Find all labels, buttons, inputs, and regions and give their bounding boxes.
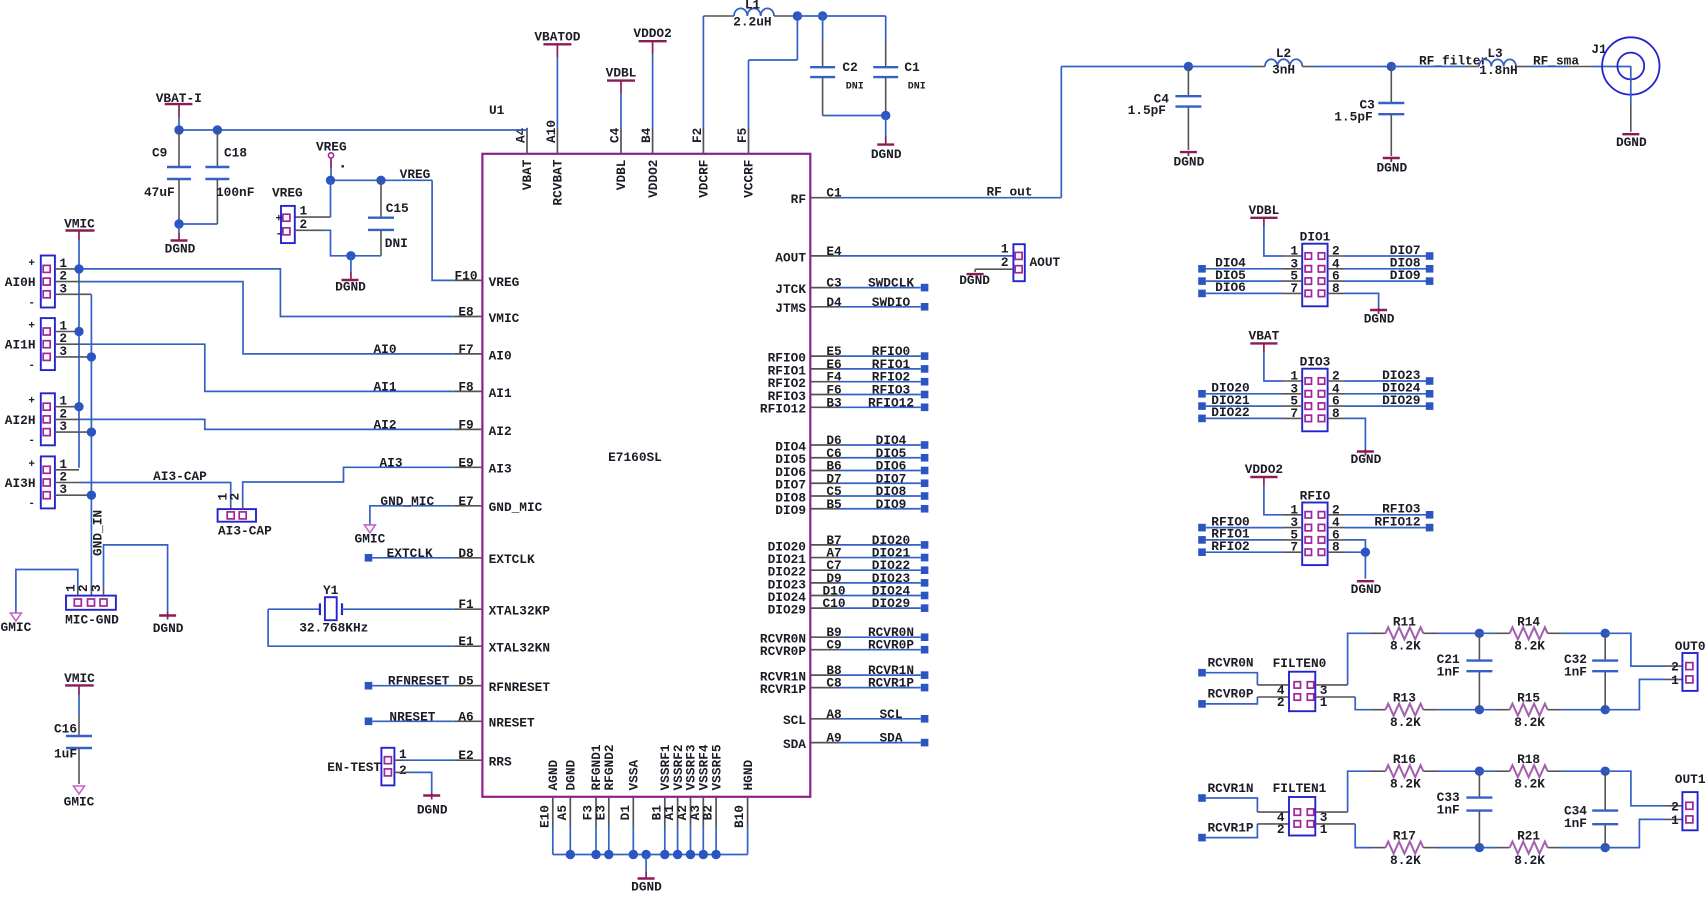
svg-text:1nF: 1nF: [1437, 664, 1460, 679]
chip pin F4 RFIO2 (right): [768, 370, 842, 391]
svg-text:DGND: DGND: [1376, 160, 1407, 175]
wire ground bus under chip: [553, 826, 748, 855]
svg-text:C2: C2: [842, 60, 857, 75]
svg-text:F10: F10: [454, 268, 477, 283]
wire/net DIO23 from DIO3 pin2: [1328, 368, 1434, 385]
chip pin D10 DIO24 (right): [768, 584, 846, 605]
connector OUT1: [1671, 772, 1706, 831]
wire VDBL to DIO1 pin1: [1264, 218, 1302, 256]
wire C18 bottom to C9 bottom: [179, 223, 217, 225]
svg-text:VREG: VREG: [400, 167, 431, 182]
svg-text:B2: B2: [701, 805, 716, 820]
wire/net DIO24 stub: [839, 584, 929, 600]
inductor L3: [1479, 46, 1518, 78]
power flag VBAT-I: [156, 91, 202, 117]
svg-text:GMIC: GMIC: [64, 795, 95, 810]
wire VMIC rail: [78, 231, 80, 468]
svg-text:RF out: RF out: [986, 185, 1032, 200]
svg-text:+: +: [28, 258, 35, 270]
svg-text:VDCRF: VDCRF: [697, 160, 712, 198]
chip pin D6 DIO4 (right): [775, 433, 841, 454]
net label RF out: [986, 185, 1032, 200]
svg-text:2: 2: [1277, 695, 1285, 710]
wire/net DIO7 stub: [839, 471, 929, 487]
svg-text:SCL: SCL: [783, 713, 806, 728]
chip pin F7 AI0 (left): [454, 342, 512, 363]
wire MIC-GND pin1 to GMIC: [16, 570, 78, 614]
svg-text:R14: R14: [1517, 614, 1540, 629]
svg-text:C18: C18: [224, 146, 247, 161]
wire/net RFIO3 stub: [839, 383, 929, 399]
ground GMIC (left): [1, 613, 32, 635]
svg-text:+: +: [276, 214, 283, 226]
svg-text:SWDCLK: SWDCLK: [868, 276, 914, 291]
chip pin C7 DIO22 (right): [768, 558, 842, 579]
chip pin A1 VSSRF2 (bottom): [662, 744, 686, 826]
connector FILTEN0 (2x2 header): [1273, 656, 1328, 711]
power flag VREG (circle): [316, 140, 347, 169]
wire AI1H pin3 to GND_IN rail: [55, 356, 92, 358]
svg-text:RRS: RRS: [489, 755, 512, 770]
svg-text:DGND: DGND: [959, 273, 990, 288]
chip pin B5 DIO9 (right): [775, 497, 842, 518]
svg-text:1nF: 1nF: [1564, 816, 1587, 831]
power flag VDBL (DIO1): [1249, 203, 1280, 218]
wire VREG to connector pin1: [295, 180, 331, 217]
svg-text:C15: C15: [386, 201, 409, 216]
wire EN-TEST pin2 to DGND: [394, 772, 431, 793]
svg-text:B10: B10: [732, 805, 747, 828]
connector RFIO (2x4 header): [1290, 489, 1340, 566]
svg-text:E1: E1: [458, 634, 474, 649]
svg-text:3nH: 3nH: [1272, 63, 1295, 78]
chip pin B9 RCVR0N (right): [760, 625, 842, 646]
chip pin D8 EXTCLK (left): [454, 546, 535, 567]
svg-text:DIO3: DIO3: [1300, 355, 1331, 370]
svg-text:R18: R18: [1517, 752, 1540, 767]
svg-text:DIO29: DIO29: [1382, 393, 1420, 408]
svg-text:1: 1: [1671, 813, 1679, 828]
chip pin A2 VSSRF3 (bottom): [675, 744, 699, 826]
svg-text:F5: F5: [735, 127, 750, 143]
svg-text:VMIC: VMIC: [64, 217, 95, 232]
wire/net DIO21 to DIO3 pin5: [1198, 393, 1302, 410]
svg-text:VBAT: VBAT: [520, 159, 535, 190]
wire bottom row to OUT1 pin1: [1605, 819, 1682, 847]
svg-text:AI0: AI0: [489, 348, 512, 363]
svg-text:RFNRESET: RFNRESET: [388, 674, 450, 689]
wire/net RCVR1N input: [1198, 781, 1289, 812]
wire VREG to chip pin F10: [432, 180, 454, 280]
wire L1 out to C1: [797, 16, 885, 40]
svg-text:1.8nH: 1.8nH: [1479, 63, 1517, 78]
svg-text:GND_MIC: GND_MIC: [380, 494, 434, 509]
svg-text:C9: C9: [152, 146, 167, 161]
chip pin F5 VCCRF (top): [735, 127, 757, 198]
capacitor C3 shunt: [1334, 67, 1404, 157]
junction node AI3H pin3: [87, 491, 96, 500]
wire/net RCVR1N stub: [839, 663, 929, 679]
svg-text:U1: U1: [489, 103, 505, 118]
svg-text:RCVR1N: RCVR1N: [1208, 781, 1254, 796]
junction node C32 top: [1601, 629, 1610, 638]
junction dots on ground bus: [566, 850, 721, 859]
svg-text:+: +: [28, 321, 35, 333]
net label AI0: [373, 342, 396, 357]
wire R13 to node: [1423, 709, 1479, 711]
svg-text:R17: R17: [1393, 829, 1416, 844]
inductor L1: [703, 0, 797, 30]
svg-text:RCVR1P: RCVR1P: [868, 676, 914, 691]
wire/net DIO22 stub: [839, 558, 929, 574]
chip pin B8 RCVR1N (right): [760, 663, 842, 684]
connector AOUT: [1001, 242, 1061, 282]
chip pin C6 DIO5 (right): [775, 446, 841, 467]
connector EN-TEST: [327, 747, 407, 785]
svg-text:SWDIO: SWDIO: [872, 295, 911, 310]
svg-text:E7: E7: [458, 494, 473, 509]
ground DGND under chip bus: [631, 855, 662, 895]
wire VBAT to DIO3 pin1: [1264, 343, 1302, 381]
svg-text:+: +: [28, 396, 35, 408]
wire/net RCVR1P stub: [839, 676, 929, 692]
svg-text:2: 2: [1277, 822, 1285, 837]
svg-text:DGND: DGND: [335, 280, 366, 295]
chip pin A6 NRESET (left): [454, 709, 535, 730]
junction node AI1H pin3: [87, 352, 96, 361]
svg-text:8.2K: 8.2K: [1514, 853, 1545, 868]
svg-text:VCCRF: VCCRF: [742, 160, 757, 198]
wire FILTEN1 pin1 to R17: [1315, 824, 1385, 848]
chip pin C10 DIO29 (right): [768, 596, 846, 617]
chip pin A8 SCL (right): [783, 707, 842, 728]
svg-text:VDBL: VDBL: [1249, 203, 1280, 218]
wire/net DIO7 from DIO1 pin2: [1328, 243, 1434, 260]
svg-text:OUT1: OUT1: [1675, 772, 1706, 787]
ground GMIC below C16: [64, 786, 95, 810]
wire AI0H pin2 to chip AI0: [55, 282, 454, 354]
svg-text:E7160SL: E7160SL: [608, 450, 662, 465]
wire/net DIO4 stub: [839, 433, 929, 449]
wire R15 to out node: [1548, 709, 1606, 711]
svg-text:DGND: DGND: [1364, 312, 1395, 327]
wire AI1H pin1 to VMIC rail: [55, 331, 79, 333]
wire to L2: [1188, 66, 1265, 68]
svg-text:RCVBAT: RCVBAT: [551, 159, 566, 205]
svg-text:SCL: SCL: [879, 707, 902, 722]
wire AI3H pin2 to AI3-CAP pin1: [55, 483, 231, 510]
svg-text:DGND: DGND: [417, 803, 448, 818]
wire GND_IN rail: [90, 295, 92, 596]
connector AI3-CAP: [216, 493, 272, 539]
capacitor C15 (DNI): [368, 180, 409, 256]
chip pin C3 JTCK (right): [775, 276, 842, 297]
ground DGND below AOUT pin2: [959, 273, 990, 288]
connector DIO1 (2x4 header): [1290, 230, 1340, 307]
svg-text:EXTCLK: EXTCLK: [387, 546, 433, 561]
wire top row to OUT0 pin2: [1605, 633, 1682, 666]
wire RFIO pin8 to DGND: [1328, 552, 1366, 579]
svg-text:DGND: DGND: [1616, 135, 1647, 150]
wire AI0H pin1 to VMIC rail and chip VMIC: [55, 269, 454, 317]
junction node C32 bottom: [1601, 705, 1610, 714]
ground DGND below C15: [335, 256, 366, 295]
chip pin F6 RFIO3 (right): [768, 383, 842, 404]
svg-text:F1: F1: [458, 597, 474, 612]
svg-text:XTAL32KP: XTAL32KP: [489, 604, 551, 619]
svg-text:VSSA: VSSA: [627, 759, 642, 790]
svg-text:RF_sma: RF_sma: [1533, 54, 1579, 69]
wire/net DIO9 stub: [839, 497, 929, 513]
junction node C34 top: [1601, 767, 1610, 776]
svg-text:RFIO12: RFIO12: [760, 402, 806, 417]
chip pin D5 RFNRESET (left): [454, 674, 551, 695]
wire DIO1 pin8 to DGND: [1328, 293, 1379, 307]
svg-text:RCVR0P: RCVR0P: [760, 644, 806, 659]
chip pin E9 AI3 (left): [454, 455, 512, 476]
junction node VBAT-I/C9: [174, 125, 183, 134]
junction node C15 ground: [346, 251, 355, 260]
wire/net RFIO0 to RFIO pin3: [1198, 514, 1302, 531]
wire/net RFIO12 stub: [839, 395, 929, 411]
svg-text:DGND: DGND: [1174, 155, 1205, 170]
svg-text:R16: R16: [1393, 752, 1416, 767]
svg-text:AI2H: AI2H: [5, 413, 36, 428]
svg-text:RCVR0N: RCVR0N: [1208, 656, 1254, 671]
svg-text:VBAT: VBAT: [1249, 328, 1280, 343]
wire/net DIO21 stub: [839, 546, 929, 562]
chip pin A10 RCVBAT (top): [544, 120, 566, 206]
svg-text:A6: A6: [458, 709, 473, 724]
wire C3 node to L3: [1391, 66, 1479, 68]
wire FILTEN1 pin3 to R16: [1315, 771, 1385, 812]
svg-text:RCVR0P: RCVR0P: [1208, 687, 1254, 702]
chip pin C8 RCVR1P (right): [760, 676, 842, 697]
svg-text:VREG: VREG: [489, 275, 520, 290]
junction node C34 bottom: [1601, 843, 1610, 852]
wire R18 to out node: [1548, 770, 1606, 772]
power flag VMIC (lower): [64, 671, 95, 686]
wire VREG node: [331, 168, 433, 180]
resistor R16 8.2K: [1386, 752, 1424, 791]
wire/net RFIO2 stub: [839, 370, 929, 386]
svg-text:OUT0: OUT0: [1675, 639, 1706, 654]
svg-text:RF: RF: [791, 192, 806, 207]
ground DGND below C9: [165, 224, 196, 257]
inductor L2: [1265, 46, 1314, 78]
svg-text:E2: E2: [458, 748, 473, 763]
svg-text:DIO9: DIO9: [876, 497, 907, 512]
svg-text:2.2uH: 2.2uH: [733, 15, 771, 30]
wire/net RCVR0P input: [1198, 687, 1289, 708]
chip pin F1 XTAL32KP (left): [454, 597, 551, 618]
junction node L1 out: [793, 11, 802, 20]
junction node C3 tap: [1387, 62, 1396, 71]
wire VDDO2 to RFIO pin1: [1264, 477, 1302, 515]
wire/net SCL stub: [839, 707, 929, 723]
net label NRESET: [389, 709, 435, 724]
wire R14 to out node: [1548, 632, 1606, 634]
wire EXTCLK: [372, 557, 454, 559]
svg-text:8.2K: 8.2K: [1390, 776, 1421, 791]
chip pin E4 AOUT (right): [775, 244, 842, 265]
wire AOUT pin2 to DGND: [975, 269, 1013, 272]
svg-text:-: -: [28, 360, 35, 372]
wire MIC-GND pin3 to DGND: [104, 545, 168, 612]
chip pin A4 VBAT (top): [514, 127, 536, 190]
wire node to R15: [1479, 709, 1509, 711]
svg-text:-: -: [28, 435, 35, 447]
svg-text:D8: D8: [458, 546, 473, 561]
svg-text:DGND: DGND: [1351, 582, 1382, 597]
wire VDBL to pin C4: [620, 93, 622, 128]
capacitor C18: [205, 130, 254, 224]
chip pin E10 AGND (bottom): [537, 759, 561, 828]
svg-text:RFGND2: RFGND2: [602, 744, 617, 790]
svg-text:-: -: [28, 498, 35, 510]
wire/net RFIO3 from RFIO pin2: [1328, 502, 1434, 519]
svg-text:VDDO2: VDDO2: [633, 26, 671, 41]
chip pin A9 SDA (right): [783, 731, 842, 752]
wire/net SWDCLK: [839, 276, 929, 292]
connector AI3H: [5, 456, 68, 510]
svg-text:AI0H: AI0H: [5, 275, 36, 290]
svg-text:C1: C1: [904, 60, 920, 75]
wire/net SWDIO: [839, 295, 929, 311]
capacitor C34 1nF: [1564, 771, 1618, 847]
resistor R17 8.2K: [1386, 829, 1424, 868]
power flag VMIC (top left): [64, 217, 95, 232]
svg-text:8.2K: 8.2K: [1514, 639, 1545, 654]
svg-text:E3: E3: [593, 805, 608, 821]
svg-text:DIO1: DIO1: [1300, 230, 1331, 245]
wire chip GND_MIC to GMIC: [370, 506, 454, 525]
svg-text:F9: F9: [458, 417, 473, 432]
connector MIC-GND: [63, 584, 119, 628]
wire/net DIO20 stub: [839, 533, 929, 549]
chip pin F10 VREG (left): [454, 268, 520, 289]
svg-text:NRESET: NRESET: [489, 716, 535, 731]
svg-text:MIC-GND: MIC-GND: [65, 613, 119, 628]
capacitor C1 (DNI): [873, 40, 926, 116]
wire AOUT to connector: [839, 255, 1014, 257]
wire C2 bottom to C1 bottom: [823, 115, 886, 117]
chip pin B4 VDDO2 (top): [639, 127, 661, 198]
wire DIO3 pin8 to DGND: [1328, 418, 1366, 449]
chip pin F9 AI2 (left): [454, 417, 512, 438]
svg-text:AI3H: AI3H: [5, 476, 36, 491]
svg-text:DGND: DGND: [153, 621, 184, 636]
svg-text:8.2K: 8.2K: [1390, 715, 1421, 730]
junction node C33 bottom: [1475, 843, 1484, 852]
svg-text:DIO22: DIO22: [1211, 405, 1249, 420]
wire L3 to J1: [1516, 66, 1631, 68]
svg-text:47uF: 47uF: [144, 185, 175, 200]
svg-text:AI3: AI3: [379, 455, 402, 470]
junction node AI0H pin1: [74, 264, 83, 273]
svg-text:E10: E10: [537, 805, 552, 828]
wire node to R18: [1479, 770, 1509, 772]
wire/net DIO4 to DIO1 pin3: [1198, 256, 1302, 273]
wire/net DIO29 from DIO3 pin6: [1328, 393, 1434, 410]
chip pin E6 RFIO1 (right): [768, 357, 842, 378]
capacitor C4 shunt: [1128, 67, 1202, 151]
wire node to R21: [1479, 847, 1509, 849]
wire pin F5 jog to L1 output: [749, 16, 798, 128]
svg-text:1: 1: [1671, 673, 1679, 688]
svg-text:E9: E9: [458, 455, 473, 470]
svg-text:1.5pF: 1.5pF: [1334, 109, 1372, 124]
junction node RFIO pin8: [1361, 548, 1370, 557]
connector J1 RF sma: [1591, 37, 1659, 94]
svg-text:JTCK: JTCK: [775, 282, 806, 297]
wire/net DIO8 stub: [839, 484, 929, 500]
svg-text:8.2K: 8.2K: [1390, 853, 1421, 868]
wire R21 to out node: [1548, 847, 1606, 849]
svg-text:L3: L3: [1487, 46, 1503, 61]
ground DGND below C4: [1174, 152, 1205, 169]
svg-text:Y1: Y1: [323, 583, 339, 598]
svg-text:DGND: DGND: [871, 147, 902, 162]
chip pin F8 AI1 (left): [454, 379, 512, 400]
svg-text:F2: F2: [690, 128, 705, 143]
chip pin C5 DIO8 (right): [775, 484, 842, 505]
wire/net DIO24 from DIO3 pin4: [1328, 381, 1434, 398]
chip pin C1 RF (right): [791, 186, 842, 207]
junction node VREG left: [326, 176, 335, 185]
junction node C4 tap: [1184, 62, 1193, 71]
junction node C2 tap: [818, 11, 827, 20]
junction node AI2H pin1: [74, 402, 83, 411]
svg-text:FILTEN1: FILTEN1: [1273, 781, 1327, 796]
junction node C21 top: [1475, 629, 1484, 638]
power flag VBATOD: [534, 29, 580, 57]
capacitor C33 1nF: [1437, 771, 1493, 847]
wire EN-TEST pin1 to chip RRS: [394, 759, 453, 761]
wire FILTEN0 pin1 to R13: [1315, 697, 1385, 710]
wire AI0H pin3 to GND_IN rail: [55, 293, 92, 295]
wire RFIO pin6 to pin8 node: [1328, 540, 1366, 552]
svg-text:8.2K: 8.2K: [1390, 639, 1421, 654]
wire/net RFIO12 from RFIO pin4: [1328, 514, 1434, 531]
svg-text:+: +: [28, 459, 35, 471]
power flag VDDO2 (top): [633, 26, 671, 54]
connector AI2H: [5, 393, 68, 447]
svg-text:100nF: 100nF: [216, 185, 254, 200]
junction node AI2H pin3: [87, 427, 96, 436]
net label VREG: [400, 167, 431, 182]
svg-text:-: -: [28, 297, 35, 309]
svg-text:1uF: 1uF: [54, 747, 77, 762]
junction node C21 bottom: [1475, 705, 1484, 714]
wire/net DIO5 to DIO1 pin5: [1198, 268, 1302, 285]
net label RF_filter: [1419, 54, 1488, 69]
chip pin F2 VDCRF (top): [690, 128, 712, 198]
power flag VDDO2 (RFIO): [1245, 462, 1283, 477]
wire AI2H pin3 to GND_IN rail: [55, 431, 92, 433]
svg-text:VMIC: VMIC: [64, 671, 95, 686]
wire AI1H pin2 to chip AI1: [55, 344, 454, 391]
ground DGND below J1: [1616, 134, 1647, 150]
chip pin E5 RFIO0 (right): [768, 344, 842, 365]
power flag VDBL (top): [606, 66, 637, 93]
capacitor C16: [54, 685, 92, 784]
wire node to R14: [1479, 632, 1509, 634]
svg-text:F8: F8: [458, 379, 473, 394]
svg-text:L2: L2: [1276, 46, 1291, 61]
net label AI3-CAP (wire): [153, 469, 207, 484]
svg-text:HGND: HGND: [741, 759, 756, 790]
